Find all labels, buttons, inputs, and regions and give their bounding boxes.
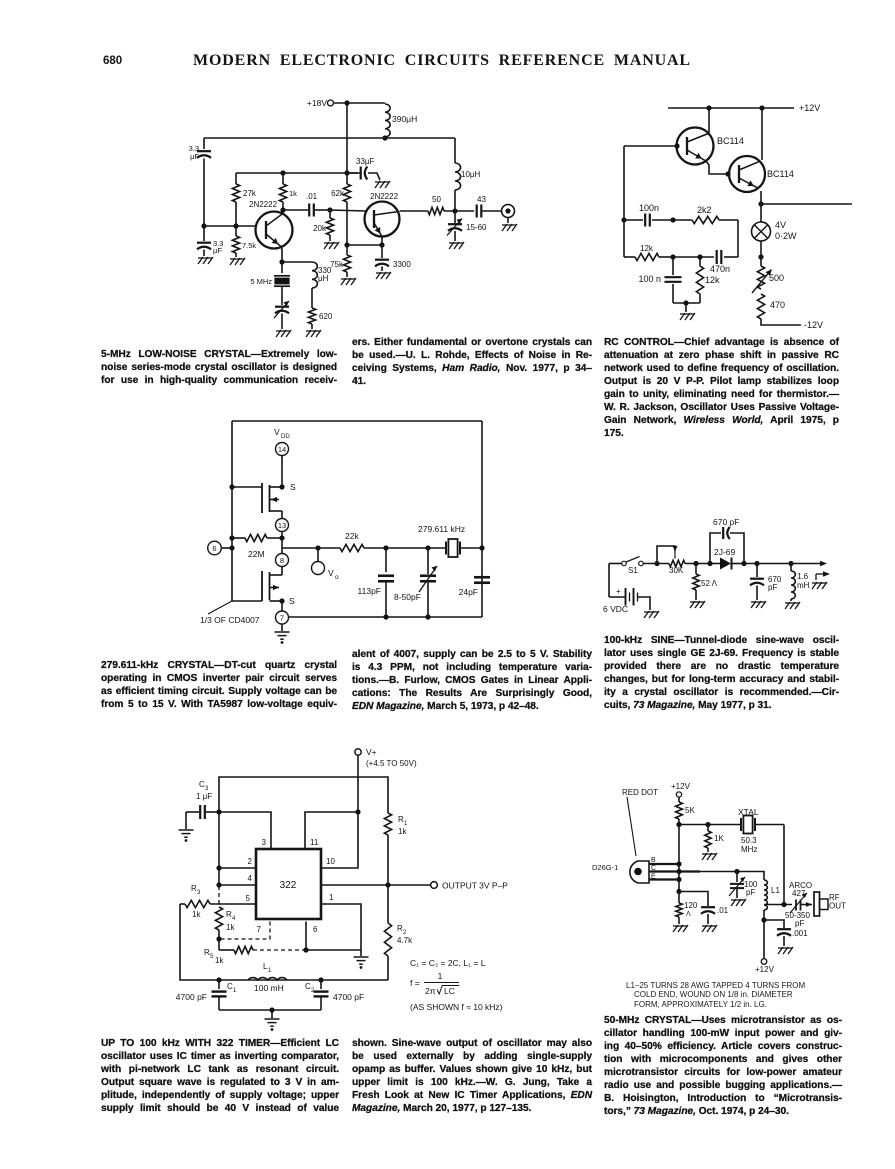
svg-text:1.6: 1.6 xyxy=(797,572,809,581)
svg-text:11: 11 xyxy=(310,838,319,847)
junction Q1 collector rail xyxy=(706,105,711,110)
wire Q2 emitter node xyxy=(760,191,762,204)
svg-text:1k: 1k xyxy=(215,956,224,965)
svg-text:120: 120 xyxy=(684,901,698,910)
junction 20k top xyxy=(327,207,332,212)
label 1/3 OF CD4007 xyxy=(208,601,232,614)
svg-text:BC114: BC114 xyxy=(767,169,794,179)
resistor 75k xyxy=(346,245,348,255)
resistor R1 1k xyxy=(384,813,391,835)
ground below 33uF xyxy=(375,181,390,188)
caption 50-MHz xyxy=(604,1014,842,1118)
svg-text:8-50pF: 8-50pF xyxy=(394,592,421,602)
wire +18V drop to bias rail xyxy=(346,103,348,173)
capacitor 113pF xyxy=(385,548,387,572)
junction C2 top xyxy=(318,977,323,982)
wire 50 to node xyxy=(444,210,474,212)
page number xyxy=(103,55,122,67)
svg-text:279.611 kHz: 279.611 kHz xyxy=(418,524,465,534)
wire output horizontal xyxy=(282,547,340,549)
svg-text:BC114: BC114 xyxy=(717,136,744,146)
wire to pin 7 xyxy=(281,601,283,611)
junction 5K bottom xyxy=(676,822,681,827)
ground below 3.3uF lower xyxy=(198,257,213,264)
junction C1 top xyxy=(216,977,221,982)
junction 670pF shunt xyxy=(754,561,759,566)
junction 1K top xyxy=(705,822,710,827)
svg-text:2J-69: 2J-69 xyxy=(714,547,736,557)
svg-text:S: S xyxy=(290,482,296,492)
junction 52ohm xyxy=(693,561,698,566)
svg-text:1: 1 xyxy=(268,968,272,974)
terminal +12V bottom xyxy=(761,959,767,965)
capacitor 670pF top loop xyxy=(710,533,721,564)
svg-text:15-60: 15-60 xyxy=(466,223,487,232)
wire Q1 base xyxy=(624,145,677,147)
svg-text:2π: 2π xyxy=(425,986,436,996)
capacitor 3.3uF lower xyxy=(203,226,205,241)
svg-text:6: 6 xyxy=(313,925,318,934)
junction 113pF bottom xyxy=(383,614,388,619)
lead E xyxy=(649,878,679,880)
ground below jack xyxy=(502,224,517,231)
wire base node to Q1 xyxy=(204,225,256,227)
wire pin2 stub xyxy=(219,867,256,869)
wire pin11 stub xyxy=(305,812,358,849)
ground below 100pF xyxy=(731,899,746,906)
wire pin4 stub xyxy=(219,884,256,886)
inductor 330uH xyxy=(312,262,317,288)
pilot lamp 4V 0.2W xyxy=(760,204,762,222)
ground below 3300 xyxy=(376,272,391,279)
svg-text:C: C xyxy=(651,865,656,872)
resistor 2k2 xyxy=(673,219,692,221)
svg-text:4.7k: 4.7k xyxy=(397,936,413,945)
svg-text:1: 1 xyxy=(329,893,334,902)
svg-text:322: 322 xyxy=(280,880,297,891)
wire left rail xyxy=(218,812,220,885)
ground below .001 xyxy=(778,947,793,954)
ground below pin7 xyxy=(281,624,283,631)
svg-text:5: 5 xyxy=(246,894,251,903)
junction pin6 R5 xyxy=(303,947,308,952)
inductor 10uH xyxy=(454,138,456,163)
terminal OUTPUT xyxy=(431,882,438,889)
ground below crystal trimmer xyxy=(276,330,291,337)
wire emitter rail down xyxy=(678,864,680,903)
ground below 7.5k xyxy=(230,258,245,265)
switch S1 xyxy=(609,563,622,565)
inductor L1 tapped xyxy=(764,880,767,910)
svg-text:8: 8 xyxy=(280,556,284,565)
svg-text:2: 2 xyxy=(248,857,253,866)
wire battery left rail xyxy=(608,564,610,591)
resistor 7.5k xyxy=(235,226,237,236)
wire feedback top rail xyxy=(232,420,482,422)
junction 113pF top xyxy=(383,545,388,550)
junction trimmer bottom xyxy=(425,614,430,619)
svg-text:2k2: 2k2 xyxy=(697,205,712,215)
svg-text:μH: μH xyxy=(318,274,329,283)
svg-text:470: 470 xyxy=(770,300,785,310)
resistor 1k collector load xyxy=(282,173,284,184)
svg-text:10μH: 10μH xyxy=(461,170,481,179)
junction pin4 xyxy=(216,882,221,887)
svg-text:.001: .001 xyxy=(792,929,808,938)
wire C1 C2 bottom xyxy=(219,1009,321,1011)
svg-text:S: S xyxy=(289,596,295,606)
trimmer capacitor 15-60 xyxy=(454,211,456,223)
svg-text:RED DOT: RED DOT xyxy=(622,788,658,797)
ground below 670pF xyxy=(751,601,766,608)
capacitor 3300 xyxy=(381,245,383,258)
wire L1 cold end xyxy=(763,910,765,958)
svg-text:7.5k: 7.5k xyxy=(242,241,256,250)
junction Q2 emitter node xyxy=(344,242,349,247)
wire Q2 collector xyxy=(761,108,763,160)
junction top rail xyxy=(344,100,349,105)
inductor L1 100mH xyxy=(248,978,287,980)
junction pin2 xyxy=(216,865,221,870)
transistor Q2 BC114 xyxy=(729,156,765,192)
mosfet upper p-channel xyxy=(232,486,262,488)
ground below 75k xyxy=(341,278,356,285)
resistor 1K xyxy=(705,831,711,848)
wire bottom rail xyxy=(180,904,388,980)
svg-text:27k: 27k xyxy=(243,189,257,198)
svg-text:7: 7 xyxy=(280,614,284,623)
svg-text:3: 3 xyxy=(197,890,201,896)
ground below C3 xyxy=(179,830,194,837)
wire +12V rail xyxy=(668,107,794,109)
svg-text:100 mH: 100 mH xyxy=(254,983,284,993)
svg-text:4: 4 xyxy=(232,916,236,922)
svg-text:12k: 12k xyxy=(640,244,654,253)
ground below 20k xyxy=(324,242,339,249)
junction V+ node xyxy=(355,809,360,814)
wire Q1 emitter to Q2 base xyxy=(706,161,728,174)
svg-text:100n: 100n xyxy=(639,203,659,213)
wire switch to pot xyxy=(643,563,669,565)
svg-text:620: 620 xyxy=(319,312,333,321)
junction 100n right xyxy=(670,217,675,222)
svg-text:7: 7 xyxy=(257,925,262,934)
wire pin1 stub xyxy=(321,904,361,950)
mosfet lower n-channel xyxy=(281,567,283,576)
junction 12k right xyxy=(670,254,675,259)
junction C3 right xyxy=(216,809,221,814)
wire pin13 to node xyxy=(281,532,283,539)
svg-text:30K: 30K xyxy=(669,566,684,575)
svg-text:0·2W: 0·2W xyxy=(775,231,797,241)
junction R1 R2 output xyxy=(385,882,390,887)
junction cap loop right xyxy=(741,561,746,566)
wire second rail xyxy=(204,137,455,139)
inductor 390uH xyxy=(385,104,390,137)
svg-text:OUT: OUT xyxy=(829,902,846,911)
svg-text:52 Λ: 52 Λ xyxy=(701,579,718,588)
svg-text:mH: mH xyxy=(797,581,810,590)
wire pin14 to source xyxy=(281,456,283,488)
junction 1k top xyxy=(280,170,285,175)
coax output jack xyxy=(502,205,515,218)
svg-text:14: 14 xyxy=(278,445,286,454)
junction .001 tap xyxy=(761,917,766,922)
inductor 1.6mH xyxy=(790,564,792,572)
svg-text:(AS SHOWN f ≈ 10 kHz): (AS SHOWN f ≈ 10 kHz) xyxy=(410,1002,503,1012)
junction 100n left xyxy=(621,217,626,222)
svg-text:LC: LC xyxy=(444,986,455,996)
svg-text:4700 pF: 4700 pF xyxy=(176,992,207,1002)
resistor 20k xyxy=(329,210,331,218)
svg-text:5K: 5K xyxy=(685,806,695,815)
svg-text:13: 13 xyxy=(278,521,286,530)
svg-text:500: 500 xyxy=(769,273,784,283)
capacitor .001 xyxy=(764,920,784,928)
resistor 50 xyxy=(428,207,444,214)
lead B xyxy=(649,863,679,865)
wire to 470n xyxy=(673,256,714,258)
wire right rail xyxy=(481,421,483,617)
wire to trimmer xyxy=(386,547,428,549)
svg-text:4V: 4V xyxy=(775,220,786,230)
ground below 1K xyxy=(702,853,717,860)
junction cap loop left xyxy=(707,561,712,566)
capacitor C2 4700pF xyxy=(320,980,322,989)
junction R4 bottom xyxy=(216,936,221,941)
svg-text:E: E xyxy=(651,874,656,881)
svg-text:+12V: +12V xyxy=(671,782,691,791)
svg-text:2N2222: 2N2222 xyxy=(249,200,278,209)
svg-text:S1: S1 xyxy=(628,566,638,575)
wire main line right xyxy=(744,563,823,565)
svg-text:C₁ = C₂ = 2C, L₁ = L: C₁ = C₂ = 2C, L₁ = L xyxy=(410,958,486,968)
svg-text:1 μF: 1 μF xyxy=(196,792,212,801)
capacitor C1 4700pF xyxy=(218,980,220,989)
terminal Vo xyxy=(317,548,319,561)
pin 13 xyxy=(276,519,289,532)
junction ground bottom xyxy=(269,1007,274,1012)
svg-text:1: 1 xyxy=(438,971,443,981)
svg-text:D26G-1: D26G-1 xyxy=(592,863,618,872)
svg-text:2N2222: 2N2222 xyxy=(370,192,399,201)
svg-text:50.3: 50.3 xyxy=(741,836,757,845)
svg-text:100 n: 100 n xyxy=(638,274,661,284)
ground pin1 xyxy=(360,950,362,956)
wire top rail +18V xyxy=(334,102,385,104)
capacitor 3.3uF upper xyxy=(203,138,205,149)
wire bias rail xyxy=(679,824,742,826)
resistor 120 ohm xyxy=(676,903,682,917)
wire left gate rail xyxy=(231,421,233,601)
wire to -12V xyxy=(761,319,801,325)
caption 279.611-kHz right column xyxy=(352,648,592,713)
ground below 15-60 xyxy=(449,242,464,249)
svg-text:1k: 1k xyxy=(398,827,407,836)
pin 14 xyxy=(276,443,289,456)
svg-text:1k: 1k xyxy=(192,910,201,919)
caption 322 timer left column xyxy=(101,1037,339,1115)
resistor R4 1k dashed top xyxy=(218,886,220,904)
wire output tap xyxy=(281,538,283,554)
terminal V+ xyxy=(355,749,361,755)
wire crystal feedback xyxy=(783,825,785,905)
svg-text:.01: .01 xyxy=(306,192,318,201)
wire bottom rail xyxy=(289,616,482,618)
ground below 620 xyxy=(306,330,321,337)
svg-text:3: 3 xyxy=(262,838,267,847)
trimmer capacitor 8-50pF xyxy=(427,548,429,574)
wire pin6 stub xyxy=(305,922,307,951)
junction output node xyxy=(452,208,457,213)
wire V+ down xyxy=(357,755,359,812)
junction Q1 collector .01 tap xyxy=(280,207,285,212)
svg-text:pF: pF xyxy=(746,888,755,897)
svg-text:DD: DD xyxy=(281,434,290,440)
caption RC CONTROL xyxy=(604,336,839,440)
junction crystal right xyxy=(479,545,484,550)
resistor 52 ohm xyxy=(695,564,697,575)
wire pin7 dashed xyxy=(219,922,270,940)
wire pin10 stub xyxy=(321,812,358,868)
capacitor 24pF xyxy=(474,576,490,579)
svg-text:22M: 22M xyxy=(248,549,265,559)
caption 322 timer right column xyxy=(352,1037,592,1115)
transistor Q1 BC114 xyxy=(708,108,710,133)
junction 12k-2 top xyxy=(697,254,702,259)
svg-text:33μF: 33μF xyxy=(356,157,375,166)
capacitor 670pF shunt xyxy=(756,564,758,578)
svg-text:5 MHz: 5 MHz xyxy=(250,277,272,286)
svg-text:390μH: 390μH xyxy=(392,114,417,124)
svg-text:10: 10 xyxy=(326,857,335,866)
wire 2k2 down xyxy=(737,220,739,257)
svg-text:5: 5 xyxy=(210,954,214,960)
ground below 120 xyxy=(673,925,688,932)
wire pin3 stub xyxy=(219,812,271,849)
svg-text:MHz: MHz xyxy=(741,845,757,854)
wire pin12 output xyxy=(321,884,430,886)
potentiometer 30K xyxy=(657,546,675,564)
capacitor 470n xyxy=(716,250,718,264)
svg-text:470n: 470n xyxy=(710,264,730,274)
resistor 620 xyxy=(311,288,313,308)
ground output xyxy=(812,582,827,589)
wire top loop xyxy=(219,777,388,813)
svg-text:113pF: 113pF xyxy=(358,586,381,596)
svg-text:-12V: -12V xyxy=(804,320,823,330)
svg-text:6: 6 xyxy=(212,544,216,553)
svg-text:43: 43 xyxy=(477,195,486,204)
potentiometer 500 xyxy=(760,257,762,266)
svg-text:1: 1 xyxy=(233,988,237,994)
resistor R5 1k dashed xyxy=(218,939,220,950)
wire to RF connector xyxy=(801,904,812,906)
resistor R2 4.7k xyxy=(387,885,389,923)
wire emitter node xyxy=(347,244,382,246)
svg-text:1k: 1k xyxy=(226,923,235,932)
resistor 470 xyxy=(757,294,764,319)
trimmer capacitor crystal xyxy=(275,306,289,308)
ground bottom LC xyxy=(265,1019,280,1026)
svg-text:20k: 20k xyxy=(313,224,327,233)
note L1 winding xyxy=(626,981,826,1009)
wire bottom junction xyxy=(673,302,700,304)
svg-text:OUTPUT 3V P–P: OUTPUT 3V P–P xyxy=(442,881,508,891)
svg-text:V+: V+ xyxy=(366,747,377,757)
junction Q2 collector rail xyxy=(759,105,764,110)
wire L1 tap output xyxy=(764,904,792,906)
wire bias rail y173 xyxy=(236,172,360,174)
svg-text:pF: pF xyxy=(795,919,804,928)
junction 390uH bottom xyxy=(382,135,387,140)
junction crystal tap xyxy=(781,902,786,907)
crystal 5 MHz xyxy=(281,262,283,273)
ground below .01 xyxy=(702,925,717,932)
wire Q2 collector output xyxy=(400,210,429,212)
lead C xyxy=(649,870,700,872)
svg-text:f =: f = xyxy=(410,978,420,988)
running head title xyxy=(192,52,692,70)
transistor D26G-1 package xyxy=(630,861,649,883)
junction 7.5k top xyxy=(233,223,238,228)
svg-text:12k: 12k xyxy=(705,275,720,285)
caption 5-MHz right column xyxy=(352,336,592,388)
ground below 1.6mH xyxy=(785,602,800,609)
svg-text:pF: pF xyxy=(768,583,777,592)
svg-text:Λ: Λ xyxy=(686,911,691,918)
resistor 22M xyxy=(229,535,234,540)
svg-text:L1: L1 xyxy=(771,886,780,895)
svg-text:3300: 3300 xyxy=(393,260,411,269)
svg-text:22k: 22k xyxy=(345,531,359,541)
wire to Q2 base xyxy=(330,210,366,211)
wire emitter stub right xyxy=(761,203,852,205)
svg-text:62k: 62k xyxy=(331,189,345,198)
resistor 27k xyxy=(235,173,237,184)
svg-text:1k: 1k xyxy=(289,189,297,198)
wire emitter to 330uH xyxy=(282,261,312,263)
output return arrow xyxy=(816,573,826,575)
junction Q1 emitter xyxy=(281,247,284,262)
pin 8 xyxy=(276,554,289,567)
junction trimmer top xyxy=(425,545,430,550)
IC timer 322 xyxy=(256,849,321,919)
svg-text:6 VDC: 6 VDC xyxy=(603,604,628,614)
wire R5 to ground xyxy=(306,949,361,951)
junction base node Q1 xyxy=(201,223,206,228)
trimmer capacitor 100pF xyxy=(736,872,738,883)
pin 7 xyxy=(276,611,289,624)
svg-text:670 pF: 670 pF xyxy=(713,517,739,527)
svg-text:V: V xyxy=(328,568,334,578)
capacitor 100n upper xyxy=(624,219,643,221)
caption 279.611-kHz left column xyxy=(101,659,337,711)
svg-text:o: o xyxy=(335,574,339,581)
wire left rail xyxy=(623,146,625,257)
junction 62k top xyxy=(344,170,349,175)
svg-text:1/3 OF CD4007: 1/3 OF CD4007 xyxy=(200,615,260,625)
svg-text:B: B xyxy=(651,857,656,864)
ground main xyxy=(680,313,695,320)
wire collector to L1 xyxy=(737,872,764,881)
svg-text:1K: 1K xyxy=(714,834,724,843)
battery 6 VDC xyxy=(608,590,610,597)
junction inverter output xyxy=(279,535,284,540)
svg-text:50: 50 xyxy=(432,195,441,204)
wire base rail down xyxy=(678,825,680,865)
resistor R3 1k xyxy=(180,903,185,905)
